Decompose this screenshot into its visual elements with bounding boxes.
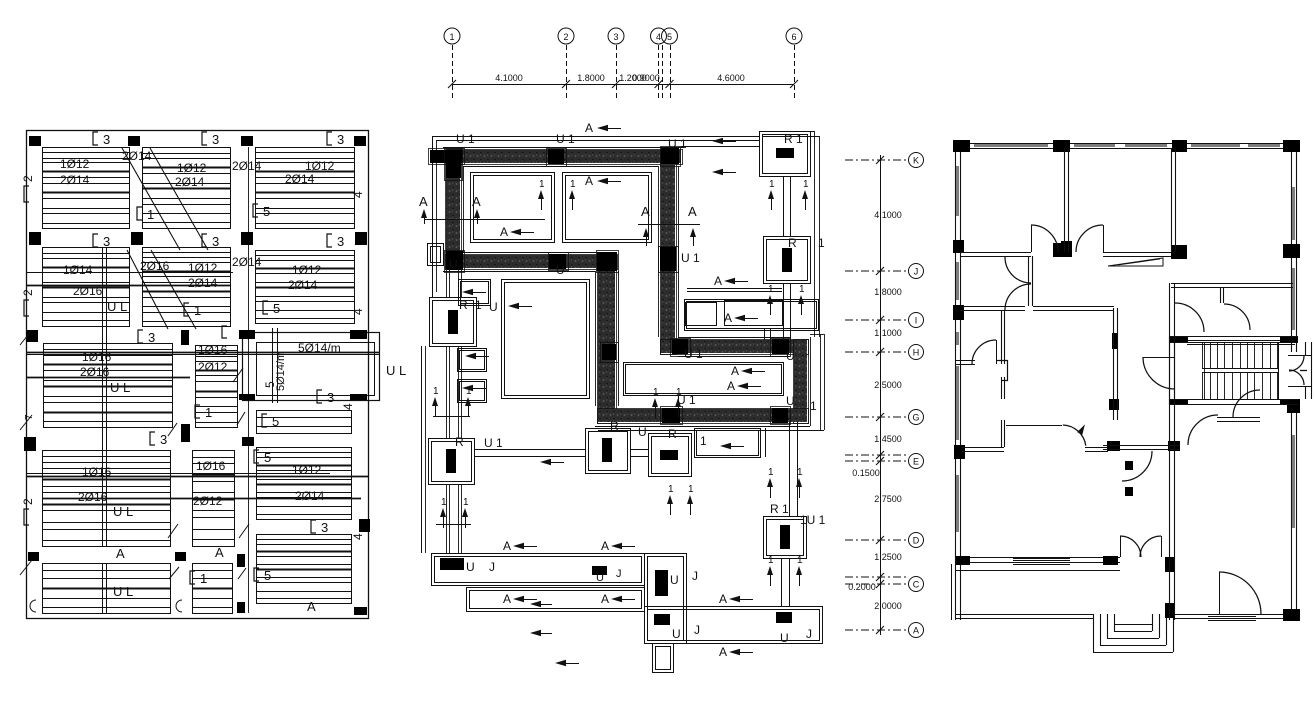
svg-text:R: R	[455, 435, 464, 449]
svg-text:A: A	[503, 592, 511, 606]
continuous rebar line row4b	[43, 498, 361, 500]
wall column tile T10	[672, 339, 688, 354]
wall outline mid-v left	[595, 271, 597, 406]
arrow left 7	[734, 315, 745, 321]
rebar arrow up 8	[465, 397, 471, 406]
plan column P14	[1168, 441, 1180, 451]
wall column tile T4	[661, 148, 679, 164]
svg-text:1: 1	[433, 386, 439, 397]
slab panel row4 colB	[193, 451, 235, 547]
shear wall mid horizontal	[446, 255, 616, 268]
continuous rebar line row3	[26, 377, 190, 379]
rebar arrow up 7	[432, 397, 438, 406]
section mark 3	[327, 234, 332, 247]
slab panel row4 colC	[257, 448, 352, 520]
plan outer boundary top	[432, 136, 759, 138]
wall outline mid-h upper	[463, 252, 612, 254]
svg-text:3: 3	[103, 132, 110, 147]
svg-text:5: 5	[667, 32, 672, 42]
floor plan exterior top wall	[955, 143, 1300, 145]
grid line 1	[452, 45, 454, 100]
beam left vertical top	[446, 268, 448, 297]
wall outline lowright lower	[678, 356, 790, 358]
svg-text:1Ø12: 1Ø12	[305, 159, 335, 173]
beam tab bottom	[653, 644, 674, 673]
svg-text:R: R	[459, 298, 468, 312]
svg-text:6: 6	[791, 32, 796, 42]
window band left 4	[956, 366, 959, 440]
long rebar row2 a	[26, 272, 233, 274]
section mark 5	[254, 450, 259, 463]
section mark 1	[137, 207, 142, 220]
level line B extra	[845, 576, 906, 578]
window band right 2	[1292, 268, 1295, 330]
level bubble K	[909, 153, 924, 168]
section mark 1	[195, 405, 200, 418]
svg-text:2Ø12: 2Ø12	[193, 494, 223, 508]
svg-text:1.4500: 1.4500	[874, 434, 902, 444]
window band top 1	[974, 144, 1048, 147]
svg-text:U: U	[449, 257, 458, 271]
svg-text:1: 1	[769, 179, 775, 190]
level tick H	[876, 348, 884, 356]
svg-text:A: A	[215, 545, 224, 560]
rebar arrow up 14	[796, 478, 802, 487]
slab panel row2 colB	[143, 248, 231, 327]
svg-text:0.1500: 0.1500	[852, 468, 880, 478]
plan column P12	[954, 445, 965, 459]
plan column P22	[1280, 336, 1298, 342]
svg-text:U: U	[786, 349, 795, 363]
level line I	[845, 319, 906, 321]
svg-text:U 1: U 1	[456, 132, 475, 146]
bent arrow 2	[530, 630, 541, 636]
slab panel row2 colC	[256, 251, 355, 324]
svg-text:1Ø12: 1Ø12	[188, 261, 218, 275]
arrow left 9	[737, 383, 748, 389]
svg-text:R: R	[668, 427, 677, 441]
svg-text:1Ø12: 1Ø12	[60, 157, 90, 171]
wall column tile T12	[662, 408, 680, 423]
small room L1	[459, 280, 491, 306]
wall stub x1028	[1028, 256, 1030, 306]
floor plan exterior left wall	[955, 143, 957, 620]
section mark 3	[93, 132, 98, 145]
arrow left 2	[597, 178, 608, 184]
plan column P16	[1103, 556, 1118, 565]
section mark 5	[262, 414, 267, 427]
plan column P6	[1053, 243, 1070, 257]
svg-text:A: A	[719, 645, 727, 659]
plan column P3	[1172, 140, 1187, 152]
svg-text:1: 1	[803, 179, 809, 190]
wedge hatch	[1108, 258, 1163, 266]
grid line 5	[670, 45, 672, 100]
plan column P21	[1170, 336, 1188, 342]
svg-text:3: 3	[337, 234, 344, 249]
balcony rebar line	[26, 352, 379, 354]
beam R-band vertical	[783, 283, 785, 340]
column marker M3	[241, 136, 253, 146]
level line J	[845, 270, 906, 272]
wall y445 segment	[1103, 445, 1180, 447]
level tick A	[876, 626, 884, 634]
grid line 6	[794, 45, 796, 100]
column marker M20	[237, 554, 245, 567]
wall outline mid-v right	[618, 271, 620, 406]
column marker M8	[355, 232, 367, 245]
svg-text:2: 2	[563, 32, 568, 42]
wall column tile T2	[446, 150, 461, 178]
plan boundary left lower	[421, 346, 423, 553]
arrow left 4	[712, 138, 723, 144]
svg-text:2Ø12: 2Ø12	[198, 360, 228, 374]
door arc bottom-left room	[972, 340, 996, 364]
svg-text:1U 1: 1U 1	[800, 513, 826, 527]
rebar arrow up 18	[798, 295, 804, 304]
slab panel row1 colA	[43, 148, 130, 229]
svg-text:3: 3	[212, 132, 219, 147]
svg-text:A: A	[724, 311, 732, 325]
svg-text:2Ø14: 2Ø14	[122, 149, 152, 163]
plan column P18	[1287, 399, 1300, 413]
svg-text:1: 1	[799, 284, 805, 295]
svg-text:U L: U L	[107, 299, 127, 314]
svg-text:A: A	[307, 599, 316, 614]
svg-text:1: 1	[810, 399, 817, 413]
beam left vertical lower	[446, 484, 448, 553]
level line G	[845, 416, 906, 418]
svg-text:J: J	[616, 568, 622, 580]
plan column P23	[1170, 399, 1188, 405]
stair landing lines	[1202, 368, 1278, 370]
window bottom left	[1013, 558, 1070, 560]
section mark 5	[253, 204, 258, 217]
room right-mid inner b	[725, 301, 783, 326]
svg-text:1: 1	[668, 484, 674, 495]
wall column tile T7	[597, 252, 617, 271]
diagonal tick row5b	[238, 568, 246, 579]
rebar arrow up 11	[667, 495, 673, 504]
room top-left A	[471, 173, 555, 243]
column marker M16	[181, 424, 190, 442]
interior wall second row right	[1103, 252, 1171, 254]
svg-text:1: 1	[463, 497, 469, 508]
arrow left 12	[513, 596, 524, 602]
svg-text:J: J	[489, 560, 495, 574]
wall column tile T1	[430, 150, 463, 163]
dim tick 2	[562, 80, 570, 88]
rebar arrow up 13	[767, 478, 773, 487]
svg-text:1Ø16: 1Ø16	[196, 459, 226, 473]
arrow left 16	[462, 289, 473, 295]
level line A	[845, 629, 906, 631]
room big left	[502, 280, 590, 399]
svg-text:R 1: R 1	[784, 132, 803, 146]
column marker M4	[354, 136, 366, 146]
svg-text:I: I	[915, 316, 918, 326]
svg-text:2Ø16: 2Ø16	[140, 259, 170, 273]
svg-text:A: A	[500, 225, 508, 239]
svg-text:1: 1	[768, 467, 774, 478]
svg-text:5: 5	[264, 450, 271, 465]
svg-text:3: 3	[160, 432, 167, 447]
vertical rebar pair colA row5	[102, 563, 104, 613]
svg-text:5: 5	[273, 301, 280, 316]
slab panel row5 colB	[193, 564, 233, 614]
svg-text:G: G	[912, 413, 919, 423]
room divider y447 b	[1085, 447, 1108, 449]
svg-text:5Ø14/m: 5Ø14/m	[298, 341, 341, 355]
grid line 4	[658, 45, 660, 100]
beam R-R horizontal a	[474, 449, 585, 451]
diagonal tick row4 colA	[168, 524, 178, 538]
wall column tile T5	[446, 251, 463, 270]
arrow left 15	[729, 649, 740, 655]
corner circle mark mid	[176, 600, 182, 612]
svg-text:1: 1	[466, 386, 472, 397]
section mark 1	[184, 303, 189, 316]
plan boundary right pair	[820, 334, 822, 430]
beam U1-R vertical	[783, 176, 785, 236]
floor plan bottom wall left section	[956, 557, 1120, 559]
column marker M18	[28, 552, 39, 561]
bent arrow 1	[530, 601, 541, 607]
svg-text:1Ø16: 1Ø16	[198, 343, 228, 357]
level bubble G	[909, 410, 924, 425]
dim tick 4	[655, 80, 663, 88]
svg-text:1: 1	[475, 298, 482, 312]
svg-text:4: 4	[351, 533, 365, 540]
svg-text:2Ø16: 2Ø16	[80, 365, 110, 379]
wall outline farright outer	[810, 337, 812, 426]
column marker M9	[181, 330, 189, 345]
wall outline bottom lower	[595, 426, 810, 428]
porch inner line	[956, 570, 1120, 572]
svg-text:3: 3	[613, 32, 618, 42]
svg-text:2Ø16: 2Ø16	[73, 284, 103, 298]
small room L2	[458, 349, 487, 372]
beam UJ-1 tile	[440, 558, 464, 570]
svg-text:C: C	[913, 580, 920, 590]
plan column P17	[1165, 557, 1175, 572]
column U1 top-right	[760, 132, 811, 177]
corridor wall y306 left	[960, 306, 1025, 308]
svg-text:1.8000: 1.8000	[874, 287, 902, 297]
svg-text:2Ø16: 2Ø16	[78, 490, 108, 504]
arrow left 14	[729, 596, 740, 602]
svg-text:4: 4	[351, 308, 365, 315]
plan column P1	[953, 140, 970, 152]
level tick I	[876, 316, 884, 324]
stair right newel	[1278, 342, 1280, 400]
wall column tile T3	[548, 149, 564, 164]
svg-text:A: A	[503, 539, 511, 553]
svg-text:1: 1	[194, 303, 201, 318]
wall outline lowright upper	[678, 337, 790, 339]
room right-mid inner a	[686, 303, 717, 326]
svg-text:2.7500: 2.7500	[874, 494, 902, 504]
column R1 left	[430, 298, 477, 347]
column marker M23	[354, 607, 367, 615]
beam right vertical to R1	[789, 422, 791, 516]
column marker M15	[24, 437, 36, 451]
grid bubble 4	[651, 28, 667, 44]
diagonal rebar 4	[151, 250, 196, 329]
beam UJ-1	[432, 554, 645, 586]
level tick J	[876, 267, 884, 275]
grid bubble 2	[558, 28, 574, 44]
floor plan bottom wall right section	[1173, 614, 1300, 616]
svg-text:1: 1	[539, 179, 545, 190]
beam UJ-3 bottom	[645, 607, 823, 644]
section line A mid	[638, 224, 700, 226]
column R bottom-mid	[586, 429, 631, 474]
vertical dimension line	[880, 155, 882, 635]
upper room bottom edge	[687, 288, 782, 290]
slab panel colC small	[257, 411, 352, 434]
svg-text:A: A	[714, 274, 722, 288]
svg-text:5: 5	[263, 381, 277, 388]
svg-text:A: A	[601, 592, 609, 606]
plan column P9	[1283, 244, 1300, 258]
step wall shape	[997, 361, 1008, 381]
floor plan exterior right wall upper	[1291, 143, 1293, 352]
level line C	[845, 583, 906, 585]
rebar arrow up 6	[462, 508, 468, 517]
plan column P11	[1112, 333, 1118, 349]
svg-text:2Ø14: 2Ø14	[285, 172, 315, 186]
shear wall top	[448, 150, 681, 163]
rebar arrow up 2	[569, 190, 575, 199]
svg-text:1: 1	[570, 179, 576, 190]
svg-text:U L: U L	[110, 380, 130, 395]
arrow left 18	[462, 385, 473, 391]
svg-text:1.1000: 1.1000	[874, 328, 902, 338]
arrow left 11	[611, 543, 622, 549]
svg-text:1: 1	[147, 207, 154, 222]
svg-text:1: 1	[818, 236, 825, 250]
grid bubble 1	[444, 28, 460, 44]
long rebar row2 b	[26, 285, 230, 287]
svg-text:4.6000: 4.6000	[717, 73, 745, 83]
floor plan exterior right wall lower	[1291, 405, 1293, 620]
plan column P27	[1125, 487, 1133, 496]
level bubble A	[909, 623, 924, 638]
arrow left 13	[611, 596, 622, 602]
level line K	[845, 159, 906, 161]
wall outline top outer	[443, 147, 684, 149]
bottom-right door arc	[1219, 572, 1261, 614]
stair treads lower flight	[1202, 373, 1204, 400]
corridor wall x1001 c	[1001, 420, 1003, 447]
svg-text:J: J	[694, 623, 700, 637]
slab panel row5 colC	[257, 535, 352, 604]
svg-text:1: 1	[768, 284, 774, 295]
svg-text:4.1000: 4.1000	[874, 210, 902, 220]
beam mid vertical room	[765, 428, 767, 457]
svg-text:1Ø16: 1Ø16	[82, 350, 112, 364]
plan column P13	[1107, 441, 1120, 451]
window band top 3	[1125, 144, 1167, 147]
corridor arc left a	[1005, 257, 1031, 283]
column R1 bottom-right	[764, 517, 807, 559]
svg-text:K: K	[913, 156, 919, 166]
rebar arrow up 1	[538, 190, 544, 199]
arrow left 3	[510, 229, 521, 235]
svg-text:4: 4	[656, 32, 661, 42]
diagonal tick row5a	[169, 567, 179, 579]
slab panel row4 colA	[43, 451, 171, 547]
grid bubble 5	[662, 28, 678, 44]
column marker M19	[175, 552, 186, 561]
section mark 3	[327, 132, 332, 145]
stair enclosure top wall	[1169, 336, 1298, 338]
svg-text:U: U	[672, 627, 681, 641]
beam UJ vertical	[645, 554, 687, 644]
corridor arc left b	[1005, 284, 1031, 310]
plan column P7	[1061, 241, 1072, 257]
shear wall left	[446, 150, 460, 268]
level tick G	[876, 413, 884, 421]
window band left 1	[956, 166, 959, 216]
svg-text:1Ø16: 1Ø16	[82, 465, 112, 479]
room right-mid outer	[685, 300, 819, 331]
svg-text:2Ø14: 2Ø14	[288, 278, 318, 292]
svg-text:J: J	[806, 627, 812, 641]
svg-text:0.2000: 0.2000	[848, 582, 876, 592]
rebar arrow up 16	[796, 566, 802, 575]
svg-text:U: U	[638, 425, 647, 439]
door leaf room bottom-left	[1006, 425, 1062, 427]
bottom double door	[1120, 536, 1141, 557]
svg-text:2: 2	[21, 289, 35, 296]
svg-text:U: U	[786, 394, 795, 408]
porch outer wall	[956, 614, 1093, 616]
svg-text:2Ø14: 2Ø14	[232, 255, 262, 269]
window band left 5	[956, 475, 959, 532]
svg-text:R: R	[788, 236, 797, 250]
section mark 3	[317, 390, 322, 403]
svg-text:5: 5	[272, 414, 279, 429]
arrow left 5	[712, 169, 723, 175]
diagonal rebar 3	[127, 250, 168, 329]
svg-text:A: A	[585, 174, 593, 188]
window band left 3	[956, 332, 959, 345]
window band left 2	[956, 262, 959, 300]
wall column tile T11	[772, 339, 789, 354]
svg-text:R: R	[610, 419, 619, 433]
column marker M14	[350, 394, 367, 400]
room top-left B	[563, 173, 652, 243]
svg-text:4: 4	[341, 403, 355, 410]
shear wall bottom horizontal	[598, 409, 807, 422]
svg-text:1: 1	[797, 555, 803, 566]
beam UJ right tile	[776, 612, 792, 623]
column marker M10	[26, 330, 38, 342]
svg-text:4.1000: 4.1000	[495, 73, 523, 83]
rebar arrow up 17	[767, 295, 773, 304]
svg-text:1Ø12: 1Ø12	[292, 463, 322, 477]
balcony panel	[243, 333, 380, 401]
slab panel row2 colA	[43, 248, 130, 327]
svg-text:A: A	[913, 626, 919, 636]
svg-text:1.8000: 1.8000	[577, 73, 605, 83]
svg-text:0.9000: 0.9000	[632, 73, 660, 83]
window band right 1	[1292, 187, 1295, 240]
interior wall right rooms divider	[1187, 340, 1295, 342]
window band top 4	[1191, 144, 1240, 147]
